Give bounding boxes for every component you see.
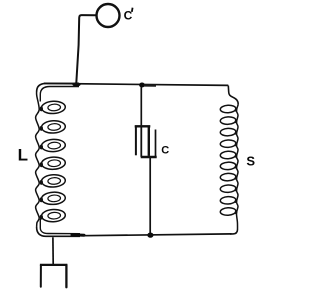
coil L inner lead top: [40, 87, 79, 102]
top lead: [140, 87, 142, 125]
coil L outer lead: top line + corner + rail snake + bottom corner + lower line: [37, 83, 79, 92]
svg-text:S: S: [246, 154, 255, 169]
inductor L: [36, 83, 84, 236]
top plate tooth left: [135, 126, 137, 155]
left leg: [40, 265, 42, 287]
top plate tooth right: [148, 126, 150, 156]
bottom lead: [149, 158, 151, 234]
wire top: [44, 83, 228, 85]
right rail snake: [236, 105, 238, 230]
junction capacitor top node: [139, 83, 145, 88]
entry from top wire: [228, 86, 238, 105]
label C': [124, 8, 134, 23]
capacitor C': [97, 4, 120, 27]
junction top-left node: [72, 82, 80, 86]
coil L rings: [41, 101, 65, 114]
ground electrode symbol: [40, 237, 68, 287]
lead down: [52, 237, 54, 264]
merge blob on bottom lines: [72, 233, 84, 236]
right leg: [65, 265, 67, 287]
bottom plate tooth right: [155, 130, 157, 157]
wire C' branch: [76, 15, 95, 83]
bottom plate bar: [141, 156, 157, 158]
inductor S: [220, 86, 238, 234]
coil L inner lead bottom: [40, 219, 80, 234]
junction capacitor bottom node: [147, 233, 153, 238]
wire bottom: [83, 234, 232, 236]
capacitor C: [135, 87, 157, 234]
svg-text:L: L: [18, 146, 28, 165]
coil S rings: [220, 105, 236, 113]
top plate bar: [135, 125, 151, 127]
exit to bottom wire: [230, 230, 238, 234]
svg-text:C: C: [161, 144, 169, 156]
bar: [40, 264, 68, 266]
bottom plate tooth left: [140, 127, 142, 157]
